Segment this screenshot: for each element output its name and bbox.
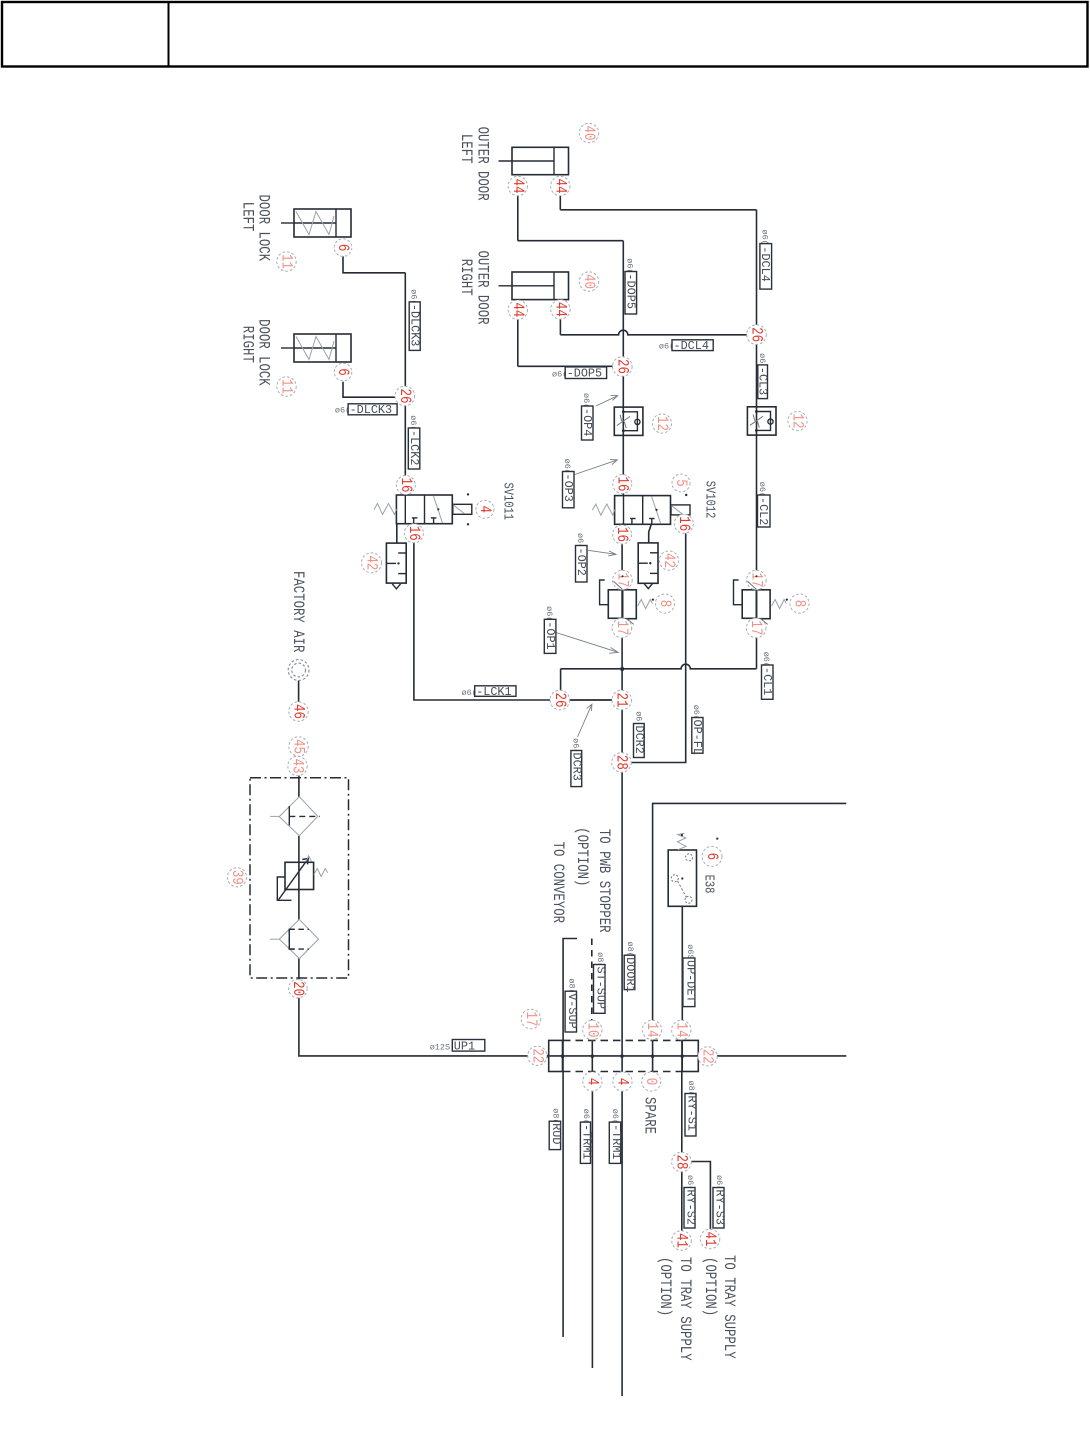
node 21 junction <box>612 690 632 710</box>
wire: RY-S1 tube down through red28 to red41 <box>681 1072 683 1232</box>
silencer unit right <box>734 580 788 619</box>
junction manifold tap V-SUP <box>561 1055 564 1058</box>
svg-text:(OPTION): (OPTION) <box>655 1257 673 1316</box>
svg-text:-CL1: -CL1 <box>760 667 774 695</box>
svg-text:8: 8 <box>790 600 808 607</box>
wire: door lock right down and right to red26 <box>343 382 404 398</box>
svg-text:41: 41 <box>672 1233 690 1248</box>
svg-text:TO PWB STOPPER: TO PWB STOPPER <box>594 829 612 933</box>
node 4 sv1011 <box>476 500 494 518</box>
node 8 left <box>655 594 674 613</box>
label LCK1 horizontal <box>462 685 517 699</box>
svg-text:4: 4 <box>583 1078 601 1085</box>
node 44 cyl2 right <box>551 300 570 319</box>
svg-text:ø12S: ø12S <box>430 1042 450 1052</box>
svg-text:SV1011: SV1011 <box>500 483 516 521</box>
svg-text:26: 26 <box>550 693 568 708</box>
check valve right (speed controller) <box>747 407 776 435</box>
junction manifold tap ST-SUP <box>591 1055 594 1058</box>
label RY-S1 vertical <box>684 1081 698 1137</box>
node 26 dlck junction <box>395 386 415 406</box>
wire: SV1012 to regulator 42 second <box>649 524 652 543</box>
svg-text:39: 39 <box>227 870 245 885</box>
svg-text:17: 17 <box>613 573 631 588</box>
svg-text:-OP3: -OP3 <box>561 474 575 502</box>
label DCL4 vertical <box>758 230 772 290</box>
node 22 left <box>528 1046 547 1065</box>
svg-text:46: 46 <box>289 704 307 719</box>
node 26 dcl4 junction <box>747 325 767 345</box>
regulator in filter unit <box>277 856 327 900</box>
wire: factory air inlet to red46 <box>298 681 300 703</box>
svg-text:-TRM1: -TRM1 <box>609 1124 623 1159</box>
svg-text:ø6S: ø6S <box>685 944 695 959</box>
label LCK2 vertical <box>407 415 421 469</box>
svg-text:17: 17 <box>747 620 765 635</box>
svg-text:TO TRAY SUPPLY: TO TRAY SUPPLY <box>719 1255 737 1359</box>
svg-text:40: 40 <box>579 126 597 141</box>
svg-text:DCR2: DCR2 <box>632 726 646 754</box>
label DCR2 vertical <box>632 711 646 757</box>
svg-text:UP-DET: UP-DET <box>684 960 698 1002</box>
svg-text:20: 20 <box>288 981 306 996</box>
svg-text:22: 22 <box>698 1049 716 1064</box>
svg-text:12: 12 <box>652 416 670 431</box>
node 4 trm1 second <box>613 1072 632 1091</box>
wire: manifold tap verticals <box>562 1040 564 1071</box>
svg-text:21: 21 <box>612 693 630 708</box>
wire: cyl2 right port horizontal to DCL4 red26, hop over DOP5 riser <box>560 330 755 335</box>
node 17 silencer right bottom <box>746 618 766 638</box>
svg-text:40: 40 <box>579 274 597 289</box>
node 16 sv1012 pilot <box>674 514 693 533</box>
svg-text:41: 41 <box>700 1232 718 1247</box>
wire: red43 into filter diamond <box>298 775 300 797</box>
wire: DCL4 riser down through red26, CL3, check valve, CL2, silencer <box>756 210 758 669</box>
node 17 silencer right top <box>747 570 767 590</box>
label CL1 vertical <box>760 652 774 700</box>
solenoid valve SV1012 <box>592 494 690 526</box>
node 20 <box>289 979 308 998</box>
wire: cyl1 left port down <box>517 196 519 241</box>
wire: E38 down to manifold <box>681 906 683 1040</box>
filter unit enclosure dashed <box>250 778 349 978</box>
arrow for OP1 label <box>556 633 618 654</box>
wire: SV1011 to regulator 42 <box>396 524 398 543</box>
svg-text:LEFT: LEFT <box>238 202 256 232</box>
node 6 door lock right <box>334 363 352 381</box>
label DLCK3 vertical <box>408 289 422 350</box>
label OP3 vertical <box>561 459 575 508</box>
wire: cyl2 left port horizontal to red26 DOP5 junction <box>518 365 621 367</box>
wire: filter diamond to mist separator through regulator <box>298 836 300 920</box>
node 16 sv1011 bottom <box>404 524 423 543</box>
svg-text:17: 17 <box>747 573 765 588</box>
regulator 42 second <box>638 543 658 589</box>
junction manifold entry <box>546 1055 549 1058</box>
wire: DOOR tap up to corner and right open line <box>653 803 847 1040</box>
svg-text:14: 14 <box>672 1023 690 1038</box>
svg-text:ø6(: ø6( <box>760 230 770 245</box>
svg-text:-DOP5: -DOP5 <box>623 274 637 309</box>
svg-text:LEFT: LEFT <box>456 134 474 164</box>
svg-text:FACTORY AIR: FACTORY AIR <box>288 571 306 653</box>
svg-text:44: 44 <box>551 179 569 194</box>
svg-text:RY-S3: RY-S3 <box>712 1190 726 1225</box>
svg-text:OP-FL: OP-FL <box>690 720 704 755</box>
fitting slash marks over node 17 circles <box>614 575 768 624</box>
cylinder outer door left <box>499 147 569 174</box>
label SUP1 horizontal <box>430 1039 485 1053</box>
wire: DLCK3 riser down through red26, LCK2 to SV1011 top <box>404 273 406 495</box>
cylinder outer door right <box>499 272 569 300</box>
svg-text:RY-S2: RY-S2 <box>683 1190 697 1225</box>
svg-text:16: 16 <box>404 526 422 541</box>
label DOP5 vertical <box>623 258 637 314</box>
svg-text:V-SUP: V-SUP <box>565 993 579 1028</box>
solenoid valve SV1011 <box>374 493 472 525</box>
node 17 supply <box>521 1009 541 1029</box>
wire: cyl1 right port down <box>559 196 561 210</box>
svg-text:44: 44 <box>508 302 526 317</box>
node 44 cyl1 left <box>508 176 527 195</box>
wire: cyl2 left port down <box>517 319 519 366</box>
limit valve E38 <box>668 833 718 906</box>
wire: silencer output horizontal with hop over OP-FL <box>561 664 757 669</box>
svg-text:-CL2: -CL2 <box>756 497 770 525</box>
svg-text:-DCL4: -DCL4 <box>674 339 709 353</box>
svg-text:10: 10 <box>583 1023 601 1038</box>
node 6 door lock left <box>334 239 352 257</box>
label DOOR1 vertical <box>623 942 637 993</box>
label OP4 vertical <box>580 393 594 440</box>
svg-text:-OP1: -OP1 <box>543 621 557 649</box>
svg-text:16: 16 <box>396 478 414 493</box>
svg-text:8: 8 <box>655 600 673 607</box>
svg-text:DOOR1: DOOR1 <box>623 957 637 992</box>
svg-text:-OP2: -OP2 <box>574 548 588 576</box>
wire: drop from horizontal into red26 junction <box>560 669 562 691</box>
svg-text:4: 4 <box>475 506 493 513</box>
node 44 cyl2 left <box>508 300 527 319</box>
node 45 <box>289 737 308 756</box>
node 39 <box>227 868 246 887</box>
arrow for DCR3 label <box>578 704 592 737</box>
node 42 second <box>659 551 678 570</box>
label RUD vertical <box>549 1108 563 1149</box>
node 12 right <box>788 411 807 430</box>
wire: mist separator down through red20 to main supply corner <box>299 958 846 1056</box>
svg-text:TO TRAY SUPPLY: TO TRAY SUPPLY <box>675 1257 693 1361</box>
wire: RUD tube <box>562 1072 564 1338</box>
arrow for OP3 label <box>575 459 618 474</box>
node 22 right <box>698 1047 717 1066</box>
check valve left (speed controller) <box>614 407 643 435</box>
svg-text:26: 26 <box>613 359 631 374</box>
svg-text:(OPTION): (OPTION) <box>572 827 590 886</box>
wire: V-SUP riser with top tick <box>563 939 577 1041</box>
cylinder door lock right <box>281 334 351 362</box>
node 5 sv1012 <box>672 474 690 492</box>
regulator 42 first <box>386 543 406 589</box>
svg-text:OUTER DOOR: OUTER DOOR <box>473 127 491 201</box>
node 41 left <box>672 1231 692 1251</box>
arrow for OP4 label <box>596 395 618 406</box>
svg-text:26: 26 <box>747 327 765 342</box>
svg-text:RIGHT: RIGHT <box>456 259 474 296</box>
node 10 <box>583 1020 602 1039</box>
svg-text:-CL3: -CL3 <box>755 367 769 395</box>
svg-text:42: 42 <box>659 553 677 568</box>
svg-text:16: 16 <box>674 516 692 531</box>
node 12 left <box>652 414 671 433</box>
node 28 upper <box>612 753 632 773</box>
node 11 door lock left <box>277 252 296 271</box>
node 28 lower <box>672 1152 692 1172</box>
svg-text:6: 6 <box>702 853 720 860</box>
svg-text:42: 42 <box>362 555 380 570</box>
svg-text:22: 22 <box>528 1048 546 1063</box>
svg-text:12: 12 <box>788 414 806 429</box>
node 26 dop5 junction <box>613 357 633 377</box>
svg-text:28: 28 <box>612 755 630 770</box>
svg-text:SPARE: SPARE <box>640 1097 658 1134</box>
svg-text:5: 5 <box>671 479 689 486</box>
wire: DOP5 riser down through red26 and check valve to SV1012 top <box>622 241 624 496</box>
label TRM1 second vertical <box>609 1109 623 1164</box>
svg-text:ST-SUP: ST-SUP <box>594 967 608 1009</box>
silencer unit left <box>600 580 654 619</box>
svg-text:44: 44 <box>551 302 569 317</box>
wire: door lock left elbow to DLCK3 riser <box>343 255 405 272</box>
wire: TRM1 tube first <box>591 1072 593 1369</box>
node 16 sv1012 top <box>613 475 632 494</box>
node 14 door tap <box>642 1020 661 1039</box>
label RY-S2 vertical <box>683 1175 697 1228</box>
svg-text:0: 0 <box>642 1078 660 1085</box>
svg-text:16: 16 <box>613 477 631 492</box>
svg-text:26: 26 <box>395 389 413 404</box>
label DCR3 vertical <box>569 738 583 787</box>
junction at silencer output line <box>621 667 624 670</box>
node 16 sv1011 top <box>396 476 415 495</box>
title block divider <box>168 2 170 67</box>
wire: SV1012 pilot port OP-FL down, left to red28 <box>631 533 685 762</box>
junction manifold tap DOOR <box>651 1055 654 1058</box>
label DLCK3 horizontal <box>335 403 397 417</box>
svg-text:RUD: RUD <box>549 1123 563 1144</box>
svg-text:6: 6 <box>333 244 351 251</box>
svg-text:DOOR LOCK: DOOR LOCK <box>254 319 272 386</box>
label OP-FL vertical <box>690 705 704 755</box>
wire: cyl2 right port down <box>559 319 561 335</box>
svg-text:43: 43 <box>288 759 306 774</box>
svg-text:44: 44 <box>508 179 526 194</box>
label SUP-DET vertical <box>683 944 698 1006</box>
node 0 spare <box>642 1072 661 1091</box>
node 40 cyl2 <box>579 272 598 291</box>
svg-text:DOOR LOCK: DOOR LOCK <box>254 195 272 262</box>
svg-text:RIGHT: RIGHT <box>238 326 256 363</box>
node 26 bottom junction <box>550 690 570 710</box>
svg-text:E38: E38 <box>701 875 717 894</box>
svg-text:16: 16 <box>613 527 631 542</box>
node 44 cyl1 right <box>551 176 570 195</box>
title block frame <box>2 2 1088 67</box>
filter diamond <box>270 797 320 836</box>
svg-text:4: 4 <box>613 1078 631 1085</box>
svg-text:DCR3: DCR3 <box>569 753 583 781</box>
svg-text:SV1012: SV1012 <box>702 481 718 519</box>
wire: SV1011 bottom port down to y700 and right to red26 <box>414 524 612 700</box>
svg-text:(OPTION): (OPTION) <box>700 1257 718 1316</box>
svg-text:11: 11 <box>277 254 295 269</box>
svg-text:RY-S1: RY-S1 <box>684 1096 698 1131</box>
wire: cyl1 right port horizontal to DCL4 riser <box>560 209 756 211</box>
svg-text:-TRM1: -TRM1 <box>579 1124 593 1159</box>
label ST-SUP vertical <box>594 952 608 1013</box>
label TRM1 first vertical <box>579 1109 593 1164</box>
svg-text:-OP4: -OP4 <box>580 408 594 436</box>
svg-text:-DOP5: -DOP5 <box>567 367 602 381</box>
factory air inlet <box>288 660 309 681</box>
wire: red28 branch right to RY-S3 <box>682 1162 711 1230</box>
wire: red26 to red21 link <box>568 699 613 701</box>
arrow for OP2 label <box>588 550 616 556</box>
node 40 cyl1 <box>579 123 598 142</box>
label DOP5 horizontal <box>552 367 607 381</box>
node 14 e38 tap <box>672 1020 691 1039</box>
svg-text:-DCL4: -DCL4 <box>758 246 772 281</box>
svg-text:-DLCK3: -DLCK3 <box>350 403 392 417</box>
svg-text:17: 17 <box>612 620 630 635</box>
label DCL4 horizontal <box>659 339 713 353</box>
node 17 silencer left bottom <box>612 618 632 638</box>
label OP2 vertical <box>574 533 588 582</box>
svg-text:UP1: UP1 <box>454 1039 475 1053</box>
label V-SUP vertical <box>565 978 579 1032</box>
node 42 first <box>362 553 382 573</box>
svg-text:6: 6 <box>333 368 351 375</box>
mist separator diamond <box>270 919 319 958</box>
node 46 <box>289 702 308 721</box>
svg-text:-LCK1: -LCK1 <box>476 685 511 699</box>
label CL2 vertical <box>756 482 770 527</box>
junction manifold tap SUP-DET <box>681 1055 684 1058</box>
label OP1 vertical <box>543 606 557 653</box>
node 43 <box>288 756 307 775</box>
node 16 sv1012 bottom <box>613 525 632 544</box>
svg-text:45: 45 <box>289 739 307 754</box>
wire: SV1012 bottom port long run down to manifold and TRM1 tube <box>621 524 623 1396</box>
node 41 right <box>700 1229 720 1249</box>
label CL3 vertical <box>755 353 769 399</box>
svg-text:17: 17 <box>521 1012 539 1027</box>
svg-text:OUTER DOOR: OUTER DOOR <box>473 251 491 325</box>
svg-text:-LCK2: -LCK2 <box>407 430 421 465</box>
label RY-S3 vertical <box>712 1175 726 1228</box>
cylinder door lock left <box>281 209 351 237</box>
wire: ST-SUP dashed riser <box>591 939 593 1021</box>
svg-text:28: 28 <box>672 1155 690 1170</box>
svg-text:-DLCK3: -DLCK3 <box>408 304 422 346</box>
node 4 trm1 first <box>583 1072 602 1091</box>
junction manifold tap DOCK <box>621 1055 624 1058</box>
svg-text:TO CONVEYOR: TO CONVEYOR <box>548 842 566 924</box>
svg-text:14: 14 <box>642 1023 660 1038</box>
svg-text:11: 11 <box>277 379 295 394</box>
node 11 door lock right <box>277 377 296 396</box>
node 8 right <box>790 594 809 613</box>
node 6 e38 <box>702 846 722 866</box>
wire: cyl1 left port horizontal to DOP5 riser <box>518 240 624 242</box>
node 17 silencer left top <box>613 570 633 590</box>
